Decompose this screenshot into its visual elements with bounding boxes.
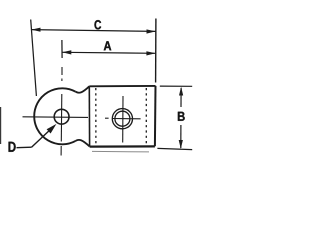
boss hole vertical centerline below [60, 146, 62, 156]
B top extension line [160, 85, 192, 87]
arrowhead C right [147, 29, 156, 33]
arrowhead C left [31, 28, 40, 32]
scan artifact left border [0, 107, 2, 144]
hidden dashed line right [145, 88, 147, 145]
leader D horizontal [17, 146, 32, 149]
boss hole vertical centerline dashes above [61, 67, 63, 75]
block outline [89, 85, 155, 87]
boss hole horizontal centerline [23, 116, 89, 119]
label D [9, 142, 16, 152]
block hole inner circle [115, 111, 130, 126]
arrowhead A left [62, 50, 71, 54]
ghost line under block bottom [92, 150, 149, 153]
leader D diagonal [32, 128, 53, 147]
dimension A label [104, 41, 112, 50]
dimension B label [178, 112, 185, 121]
boss hole vertical centerline [60, 94, 63, 142]
block hole horizontal centerline dash left [105, 117, 109, 119]
hidden dashed line left [95, 88, 97, 145]
neck S-curve bottom [76, 140, 90, 147]
boss hole circle [54, 109, 69, 124]
arrowhead B up [179, 87, 183, 96]
B bottom extension line [157, 148, 192, 149]
dimension A line [62, 52, 155, 53]
boss circle (eye) [34, 88, 75, 144]
block hole outer circle [112, 109, 132, 129]
dimension A extension line left [61, 40, 63, 58]
arrowhead A right [146, 51, 155, 55]
arrowhead B down [179, 140, 183, 149]
arrowhead D [47, 124, 57, 134]
neck S-curve top [76, 86, 90, 92]
dimension C line [32, 30, 156, 32]
dimension C extension line left (slanted) [31, 20, 37, 97]
B dimension line lower [180, 125, 182, 148]
shared right extension line for C and A [155, 19, 157, 83]
block hole horizontal centerline [112, 118, 141, 120]
B dimension line upper [180, 88, 182, 107]
block hole vertical centerline [122, 96, 124, 143]
dimension C label [94, 20, 101, 29]
